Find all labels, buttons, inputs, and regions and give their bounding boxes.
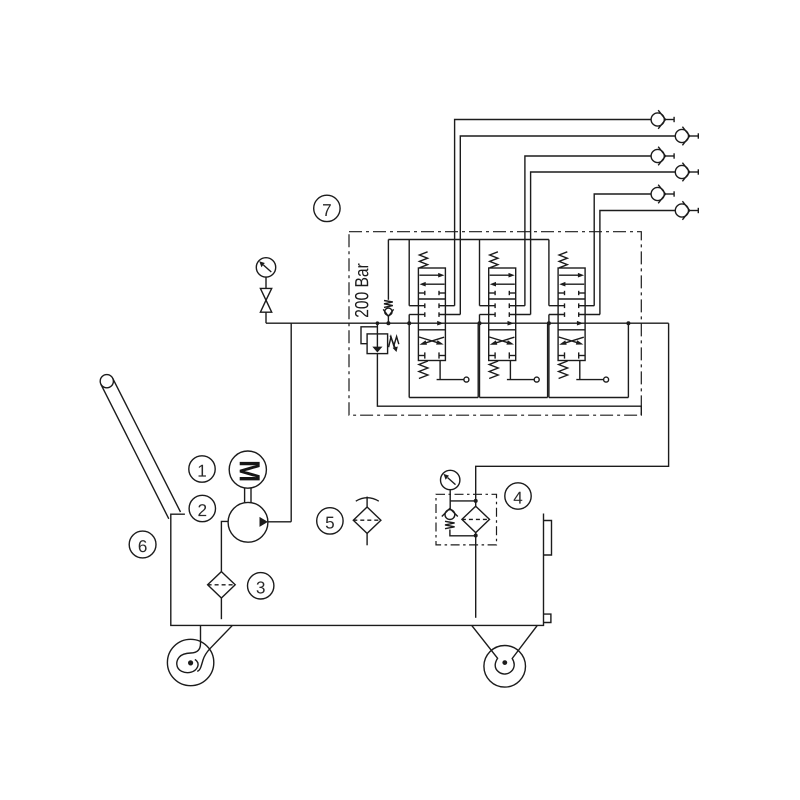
- label circle 5: [317, 508, 343, 534]
- label circle 3: [248, 573, 274, 599]
- wire: coupler line A2: [525, 156, 651, 306]
- wire: pump suction line: [221, 521, 228, 571]
- fixed caster wheel: [472, 625, 538, 687]
- label circle 7: [314, 195, 340, 221]
- directional valve V2: [480, 240, 540, 398]
- shut-off valve: [260, 277, 271, 312]
- quick coupler Q1: [651, 110, 674, 129]
- pressure gauge G1: [256, 258, 275, 277]
- wire: filter to tank: [475, 533, 477, 618]
- wire: tank outline: [171, 514, 544, 626]
- junction: test point on rail: [386, 321, 390, 325]
- handle grip: [100, 375, 113, 388]
- wire: gallery top line: [388, 239, 549, 241]
- test point check valve: [383, 301, 393, 324]
- pump P1: [228, 502, 268, 542]
- label circle 1: [189, 456, 215, 482]
- handle bar: [101, 378, 181, 519]
- wire: coupler line B2: [531, 172, 676, 315]
- breather filter F2: [353, 497, 381, 546]
- wire: return line to filter: [476, 323, 669, 506]
- label: 200 Bar: [355, 263, 368, 317]
- label circle 6: [129, 531, 156, 558]
- wire: coupler line B1: [460, 136, 675, 315]
- junction: relief drop on rail: [376, 321, 380, 325]
- wire: valve V3 box: [549, 323, 629, 397]
- junction: filter outlet: [474, 534, 478, 538]
- wire: gauge branch stem: [265, 312, 267, 323]
- swivel caster wheel: [167, 625, 232, 685]
- node: oil level gauge upper tab: [544, 521, 552, 556]
- junction: V2 on rail: [478, 321, 482, 325]
- wire: main pressure rail: [266, 322, 669, 324]
- wire: valve V1 box: [409, 323, 478, 397]
- wire: suction filter to tank: [220, 598, 222, 619]
- wire: coupler line A3: [594, 194, 651, 306]
- label circle 4: [505, 483, 531, 509]
- return filter unit box (dash-dot): [436, 494, 497, 545]
- junction: V1 on rail: [407, 321, 411, 325]
- quick coupler Q6: [675, 201, 698, 220]
- bypass check valve: [442, 501, 476, 536]
- motor M1: [229, 451, 266, 488]
- wire: pressure riser: [290, 323, 292, 522]
- directional valve V1: [409, 240, 469, 398]
- quick coupler Q5: [651, 185, 674, 204]
- junction: filter inlet: [474, 499, 478, 503]
- motor-pump shaft: [245, 488, 251, 502]
- quick coupler Q3: [651, 147, 674, 166]
- suction filter F1: [208, 572, 236, 598]
- junction: V3 on rail: [547, 321, 551, 325]
- wire: gauge G2 stem: [450, 490, 476, 501]
- pressure gauge G2: [441, 470, 460, 489]
- directional valve V3: [549, 240, 609, 398]
- wire: relief return line: [377, 354, 641, 416]
- wire: pump outlet to riser: [268, 521, 291, 523]
- wire: test point riser: [387, 240, 389, 300]
- relief valve RV1: [361, 323, 399, 353]
- wire: coupler line A1: [455, 120, 651, 306]
- manifold enclosure (dash-dot): [349, 232, 641, 416]
- junction: rail drop right: [626, 321, 630, 325]
- wire: coupler line B3: [600, 211, 675, 315]
- return filter F3: [462, 506, 490, 532]
- quick coupler Q2: [675, 127, 698, 146]
- quick coupler Q4: [675, 163, 698, 182]
- node: oil level gauge lower tab: [544, 614, 551, 622]
- wire: valve V2 box: [480, 323, 548, 397]
- label circle 2: [189, 495, 215, 521]
